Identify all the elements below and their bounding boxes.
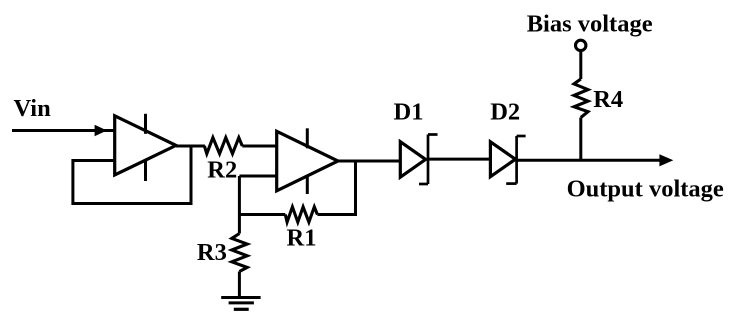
ground (221, 296, 260, 299)
wire R2 to U2 input (242, 145, 276, 148)
wire U2 output to D1 (338, 160, 400, 163)
wire U1 output to R2 (176, 145, 205, 148)
wire D1 to D2 (428, 158, 490, 161)
wire R4 to output node (579, 118, 582, 161)
svg-text:R1: R1 (287, 225, 317, 252)
diode D1 cathode top hook (428, 133, 438, 136)
wire R1 feedback right (317, 161, 355, 215)
wire R1 feedback left (239, 213, 285, 216)
diode D1 cathode bottom hook (419, 183, 428, 186)
wire R3 to ground (238, 272, 241, 298)
diode D2 cathode top hook (517, 135, 526, 138)
svg-text:D2: D2 (490, 99, 520, 126)
diode D1 cathode bar (427, 135, 430, 185)
wire U1 feedback loop (73, 146, 191, 204)
resistor R3 (232, 234, 247, 272)
wire U2 inverting input (239, 175, 276, 178)
resistor R1 (285, 207, 317, 222)
terminal bias voltage (576, 40, 586, 50)
wire output line (517, 159, 661, 162)
diode D2 (490, 142, 515, 177)
pin U2 V+ (306, 128, 309, 148)
svg-text:D1: D1 (394, 99, 424, 126)
resistor R4 (574, 79, 588, 118)
svg-text:R2: R2 (207, 156, 237, 183)
op-amp U1 (115, 116, 176, 175)
svg-text:Bias voltage: Bias voltage (527, 10, 653, 37)
svg-text:R3: R3 (197, 239, 227, 266)
wire Vin input with arrow into U1 (12, 129, 115, 132)
diode D1 (400, 142, 425, 178)
op-amp U2 (277, 131, 338, 191)
resistor R2 (204, 138, 242, 154)
pin U1 V+ (144, 114, 147, 134)
wire bias terminal to R4 (579, 52, 582, 79)
pin U2 V- (306, 176, 309, 195)
arrowhead output (659, 154, 673, 166)
pin U1 V- (144, 160, 147, 181)
svg-text:R4: R4 (593, 86, 623, 113)
diode D2 cathode bar (515, 136, 518, 184)
wire junction node to R3 (238, 176, 241, 234)
svg-text:Vin: Vin (14, 95, 52, 122)
diode D2 cathode bottom hook (506, 182, 516, 185)
svg-text:Output voltage: Output voltage (567, 175, 724, 202)
